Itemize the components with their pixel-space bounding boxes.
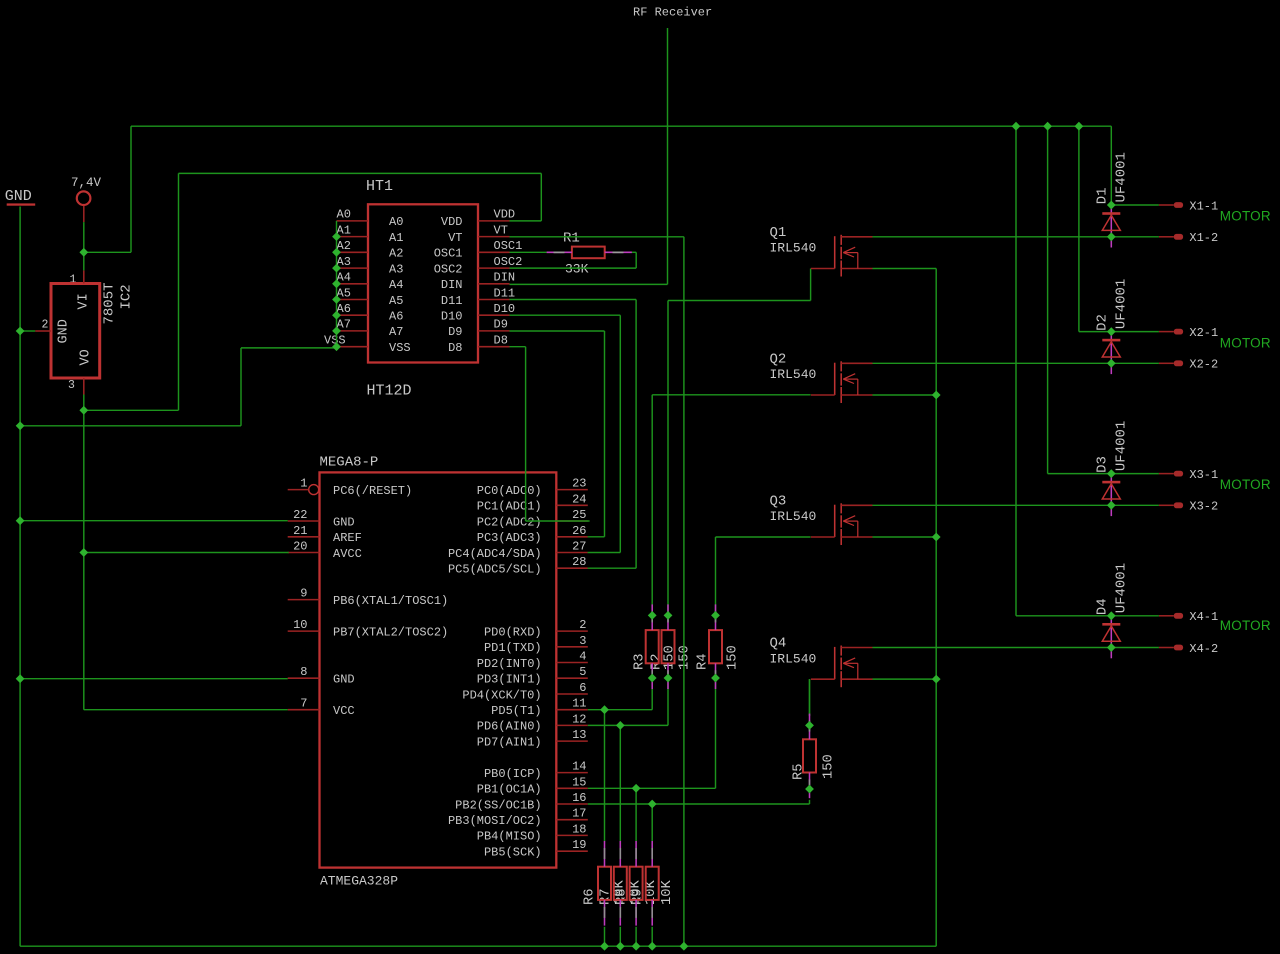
svg-text:MOTOR: MOTOR <box>1220 477 1271 492</box>
svg-text:X2-2: X2-2 <box>1189 358 1218 372</box>
svg-text:DIN: DIN <box>494 271 516 285</box>
svg-text:MOTOR: MOTOR <box>1220 209 1271 224</box>
svg-text:AREF: AREF <box>333 531 362 545</box>
svg-text:VSS: VSS <box>389 341 411 355</box>
svg-text:PC5(ADC5/SCL): PC5(ADC5/SCL) <box>448 563 542 577</box>
svg-text:PB2(SS/OC1B): PB2(SS/OC1B) <box>455 798 541 812</box>
svg-text:7: 7 <box>300 697 307 711</box>
svg-text:VDD: VDD <box>494 208 516 222</box>
svg-text:14: 14 <box>572 760 586 774</box>
svg-text:X2-1: X2-1 <box>1189 326 1218 340</box>
svg-text:UF4001: UF4001 <box>1113 152 1129 202</box>
svg-text:VT: VT <box>494 223 508 237</box>
svg-text:D8: D8 <box>494 334 508 348</box>
svg-text:PB1(OC1A): PB1(OC1A) <box>477 783 542 797</box>
svg-text:OSC2: OSC2 <box>494 255 523 269</box>
svg-text:VCC: VCC <box>333 704 355 718</box>
svg-text:GND: GND <box>5 188 32 205</box>
svg-text:4: 4 <box>579 650 586 664</box>
svg-text:Q4: Q4 <box>770 636 787 652</box>
svg-text:X1-1: X1-1 <box>1189 199 1218 213</box>
svg-text:21: 21 <box>293 524 307 538</box>
svg-text:D10: D10 <box>494 302 516 316</box>
svg-text:PC4(ADC4/SDA): PC4(ADC4/SDA) <box>448 547 542 561</box>
svg-text:16: 16 <box>572 791 586 805</box>
svg-text:PB7(XTAL2/TOSC2): PB7(XTAL2/TOSC2) <box>333 625 448 639</box>
svg-text:28: 28 <box>572 555 586 569</box>
svg-text:MOTOR: MOTOR <box>1220 618 1271 633</box>
svg-text:PC2(ADC2): PC2(ADC2) <box>477 515 542 529</box>
svg-text:MOTOR: MOTOR <box>1220 335 1271 350</box>
svg-text:D8: D8 <box>448 341 462 355</box>
svg-text:7,4V: 7,4V <box>71 176 102 190</box>
svg-text:IRL540: IRL540 <box>770 651 817 666</box>
svg-text:MEGA8-P: MEGA8-P <box>320 455 379 471</box>
svg-text:D11: D11 <box>494 286 516 300</box>
svg-text:PB0(ICP): PB0(ICP) <box>484 767 542 781</box>
svg-text:PD4(XCK/T0): PD4(XCK/T0) <box>462 688 541 702</box>
svg-text:X4-1: X4-1 <box>1189 610 1218 624</box>
svg-text:A3: A3 <box>389 262 403 276</box>
svg-text:AVCC: AVCC <box>333 547 362 561</box>
svg-text:Q1: Q1 <box>770 225 787 241</box>
svg-text:R6: R6 <box>583 888 598 905</box>
svg-text:D9: D9 <box>494 318 508 332</box>
svg-text:11: 11 <box>572 697 586 711</box>
svg-text:PD2(INT0): PD2(INT0) <box>477 657 542 671</box>
svg-text:UF4001: UF4001 <box>1113 279 1129 329</box>
svg-text:A7: A7 <box>389 325 403 339</box>
svg-text:ATMEGA328P: ATMEGA328P <box>320 874 398 889</box>
svg-text:6: 6 <box>579 681 586 695</box>
svg-text:2: 2 <box>42 319 49 332</box>
svg-text:D4: D4 <box>1095 598 1111 615</box>
svg-text:D10: D10 <box>441 310 463 324</box>
svg-text:GND: GND <box>57 319 72 343</box>
svg-text:A0: A0 <box>389 215 403 229</box>
svg-text:DIN: DIN <box>441 278 463 292</box>
svg-text:PC0(ADC0): PC0(ADC0) <box>477 484 542 498</box>
svg-text:D11: D11 <box>441 294 463 308</box>
svg-text:Q3: Q3 <box>770 493 787 509</box>
svg-text:X3-2: X3-2 <box>1189 500 1218 514</box>
svg-text:PB5(SCK): PB5(SCK) <box>484 846 542 860</box>
svg-text:D2: D2 <box>1095 314 1111 331</box>
svg-text:10K: 10K <box>660 879 675 905</box>
svg-text:PD5(T1): PD5(T1) <box>491 704 541 718</box>
svg-text:OSC1: OSC1 <box>434 247 463 261</box>
svg-text:GND: GND <box>333 515 355 529</box>
svg-text:18: 18 <box>572 822 586 836</box>
svg-text:PD7(AIN1): PD7(AIN1) <box>477 735 542 749</box>
svg-text:26: 26 <box>572 524 586 538</box>
svg-text:IRL540: IRL540 <box>770 509 817 524</box>
svg-text:IRL540: IRL540 <box>770 367 817 382</box>
svg-text:R1: R1 <box>563 231 580 247</box>
svg-text:10: 10 <box>293 618 307 632</box>
svg-text:A6: A6 <box>389 310 403 324</box>
svg-text:33K: 33K <box>565 262 589 277</box>
svg-text:D3: D3 <box>1095 456 1111 473</box>
svg-text:PC6(/RESET): PC6(/RESET) <box>333 484 412 498</box>
svg-text:PB3(MOSI/OC2): PB3(MOSI/OC2) <box>448 814 542 828</box>
svg-text:27: 27 <box>572 540 586 554</box>
svg-text:PC3(ADC3): PC3(ADC3) <box>477 531 542 545</box>
svg-text:150: 150 <box>726 645 741 670</box>
svg-text:22: 22 <box>293 508 307 522</box>
svg-text:9: 9 <box>300 587 307 601</box>
svg-text:VO: VO <box>79 349 94 365</box>
svg-text:IRL540: IRL540 <box>770 241 817 256</box>
svg-text:15: 15 <box>572 775 586 789</box>
svg-text:2: 2 <box>579 618 586 632</box>
svg-text:Q2: Q2 <box>770 351 787 367</box>
svg-text:12: 12 <box>572 712 586 726</box>
svg-text:24: 24 <box>572 492 586 506</box>
svg-text:PB6(XTAL1/TOSC1): PB6(XTAL1/TOSC1) <box>333 594 448 608</box>
svg-text:X1-2: X1-2 <box>1189 231 1218 245</box>
svg-text:PB4(MISO): PB4(MISO) <box>477 830 542 844</box>
svg-text:25: 25 <box>572 508 586 522</box>
svg-text:UF4001: UF4001 <box>1113 563 1129 613</box>
svg-text:13: 13 <box>572 728 586 742</box>
svg-text:PD0(RXD): PD0(RXD) <box>484 625 542 639</box>
svg-text:GND: GND <box>333 673 355 687</box>
svg-text:IC2: IC2 <box>119 284 135 309</box>
svg-text:D1: D1 <box>1095 187 1111 204</box>
svg-text:HT12D: HT12D <box>367 383 412 400</box>
svg-text:OSC1: OSC1 <box>494 239 523 253</box>
svg-text:5: 5 <box>579 665 586 679</box>
svg-text:A4: A4 <box>389 278 403 292</box>
svg-text:HT1: HT1 <box>366 178 393 195</box>
svg-text:PC1(ADC1): PC1(ADC1) <box>477 500 542 514</box>
svg-text:A5: A5 <box>389 294 403 308</box>
svg-text:OSC2: OSC2 <box>434 262 463 276</box>
svg-text:PD1(TXD): PD1(TXD) <box>484 641 542 655</box>
svg-text:RF Receiver: RF Receiver <box>633 6 712 20</box>
svg-text:PD3(INT1): PD3(INT1) <box>477 673 542 687</box>
svg-text:VI: VI <box>77 293 92 309</box>
svg-text:8: 8 <box>300 665 307 679</box>
svg-text:UF4001: UF4001 <box>1113 421 1129 471</box>
svg-text:PD6(AIN0): PD6(AIN0) <box>477 720 542 734</box>
svg-text:D9: D9 <box>448 325 462 339</box>
svg-text:VT: VT <box>448 231 462 245</box>
svg-text:VDD: VDD <box>441 215 463 229</box>
svg-text:1: 1 <box>300 477 307 491</box>
svg-text:3: 3 <box>68 379 75 392</box>
svg-text:A1: A1 <box>389 231 403 245</box>
svg-text:3: 3 <box>579 634 586 648</box>
svg-text:19: 19 <box>572 838 586 852</box>
svg-text:X4-2: X4-2 <box>1189 642 1218 656</box>
svg-text:7805T: 7805T <box>102 282 118 324</box>
svg-text:17: 17 <box>572 807 586 821</box>
svg-text:20: 20 <box>293 540 307 554</box>
svg-text:A0: A0 <box>337 208 351 222</box>
svg-text:23: 23 <box>572 477 586 491</box>
svg-text:A2: A2 <box>389 247 403 261</box>
svg-text:150: 150 <box>822 754 837 779</box>
svg-text:X3-1: X3-1 <box>1189 468 1218 482</box>
svg-text:150: 150 <box>678 645 693 670</box>
